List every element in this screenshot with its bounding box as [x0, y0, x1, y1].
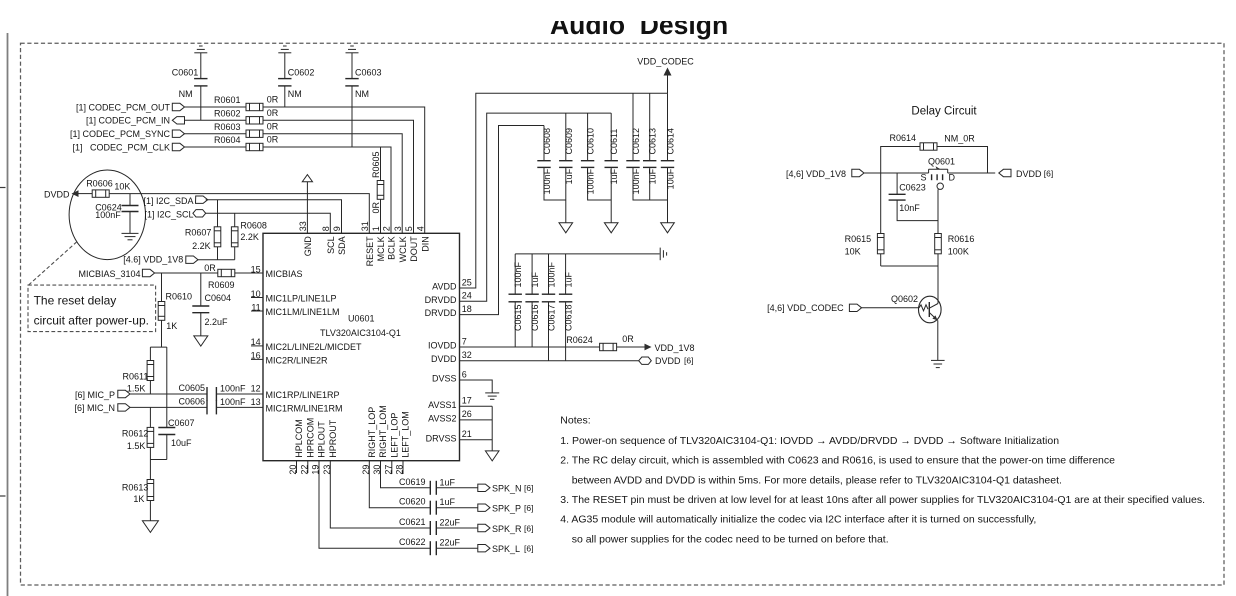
net label DVDD [6]	[655, 356, 693, 367]
svg-text:13: 13	[251, 397, 261, 407]
capacitor C0601 NM	[172, 46, 208, 120]
pin 33 GND	[298, 221, 313, 256]
capacitor C0609 1uF	[559, 113, 574, 223]
svg-text:C0617: C0617	[547, 305, 557, 332]
wire pin19 to C0622	[319, 461, 430, 549]
svg-text:SPK_L: SPK_L	[492, 544, 520, 554]
wire R0609 to pin 15	[235, 272, 263, 274]
connector I2C_SCL	[193, 210, 206, 217]
svg-text:SPK_R: SPK_R	[492, 524, 522, 534]
svg-text:between AVDD and DVDD is withi: between AVDD and DVDD is within 5ms. For…	[572, 474, 1062, 486]
op IC U0601 TLV320AIC3104-Q1 body	[263, 233, 460, 460]
svg-text:9: 9	[332, 226, 342, 231]
pin 19 HPLOUT	[311, 421, 327, 475]
svg-text:BCLK: BCLK	[387, 236, 397, 260]
svg-text:100K: 100K	[948, 246, 969, 256]
svg-text:4: 4	[415, 226, 425, 231]
pin 32 DVDD	[431, 350, 472, 364]
svg-text:C0608: C0608	[542, 128, 552, 155]
connector SPK_P	[478, 504, 490, 511]
svg-text:C0602: C0602	[288, 68, 315, 78]
svg-text:20: 20	[288, 465, 298, 475]
pin 20 HPLCOM	[288, 419, 304, 474]
capacitor C0619 1uF	[399, 477, 478, 495]
svg-text:SDA: SDA	[337, 236, 347, 255]
resistor R0611 1.5K	[123, 347, 154, 394]
wire base	[862, 307, 919, 309]
svg-text:32: 32	[462, 350, 472, 360]
svg-text:[1] I2C_SDA: [1] I2C_SDA	[143, 196, 193, 206]
svg-text:[6]: [6]	[684, 356, 693, 366]
svg-text:R0606: R0606	[86, 178, 113, 188]
svg-text:R0615: R0615	[845, 234, 872, 244]
svg-text:1.5K: 1.5K	[127, 441, 146, 451]
pin 9 SDA	[332, 226, 347, 255]
wire AVSS bus down	[491, 406, 493, 451]
svg-text:C0614: C0614	[666, 128, 676, 155]
svg-text:21: 21	[462, 429, 472, 439]
svg-text:C0612: C0612	[631, 128, 641, 155]
pin 8 SCL	[321, 226, 336, 254]
wire PCM_CLK to BCLK	[263, 147, 391, 233]
pin 10 MIC1LP/LINE1LP	[251, 289, 337, 304]
wire R0614 to drain branch	[937, 147, 988, 174]
svg-text:C0610: C0610	[586, 128, 596, 155]
svg-text:NM: NM	[355, 89, 369, 99]
svg-text:R0614: R0614	[889, 133, 916, 143]
svg-text:R0610: R0610	[166, 292, 193, 302]
connector VDD_1V8 (delay)	[852, 169, 864, 176]
svg-text:[6] MIC_P: [6] MIC_P	[75, 390, 115, 400]
connector SPK_R	[478, 524, 490, 531]
svg-text:10: 10	[251, 289, 261, 299]
capacitor C0610 100nF	[581, 113, 611, 200]
resistor R0610 1K	[158, 273, 192, 347]
node DVDD (bubble)	[44, 189, 92, 199]
resistor R0603 0R	[214, 121, 279, 137]
svg-text:15: 15	[251, 264, 261, 274]
capacitor C0622 22uF	[399, 537, 478, 555]
svg-text:22uF: 22uF	[440, 538, 461, 548]
svg-text:C0611: C0611	[609, 129, 619, 155]
connector SPK_N	[478, 484, 490, 491]
pin 11 MIC1LM/LINE1LM	[251, 302, 340, 317]
svg-text:DVSS: DVSS	[432, 374, 457, 384]
svg-text:C0622: C0622	[399, 537, 426, 547]
pin 2 BCLK	[382, 226, 397, 260]
resistor R0608 2.2K (SCL pull)	[231, 213, 267, 259]
svg-text:U0601: U0601	[348, 314, 375, 324]
svg-text:2.2K: 2.2K	[192, 241, 211, 251]
resistor R0604 0R	[214, 135, 279, 151]
capacitor C0605 100nF	[178, 383, 246, 401]
svg-text:C0618: C0618	[564, 305, 574, 332]
svg-text:R0609: R0609	[208, 280, 235, 290]
svg-text:100nF: 100nF	[513, 261, 523, 287]
wire PCM_CLK row	[185, 146, 247, 148]
svg-text:HPROUT: HPROUT	[328, 419, 338, 458]
svg-text:DVDD: DVDD	[655, 356, 681, 366]
svg-text:25: 25	[462, 277, 472, 287]
capacitor C0614 10uF	[661, 93, 676, 223]
pin 6 DVSS	[432, 369, 467, 383]
svg-text:R0611: R0611	[123, 371, 149, 381]
connector CODEC_PCM_IN	[172, 117, 184, 124]
ground triangle under C0609	[559, 223, 573, 233]
svg-text:HPRCOM: HPRCOM	[306, 418, 316, 458]
svg-text:1uF: 1uF	[440, 497, 456, 507]
note box: reset delay text	[28, 285, 156, 332]
connector CODEC_PCM_OUT	[172, 103, 184, 110]
svg-text:circuit after power-up.: circuit after power-up.	[34, 314, 149, 328]
ground triangle under C0614	[661, 223, 675, 233]
svg-text:NM: NM	[288, 89, 302, 99]
svg-text:22: 22	[299, 465, 309, 475]
svg-text:2.2uF: 2.2uF	[205, 317, 229, 327]
wire AVDD rail to VDD_CODEC	[460, 93, 668, 288]
capacitor C0604 2.2uF	[192, 273, 231, 336]
svg-text:WCLK: WCLK	[398, 236, 408, 262]
wire R0606 to C0624 node	[109, 193, 130, 195]
svg-text:C0603: C0603	[355, 68, 382, 78]
svg-text:MCLK: MCLK	[376, 236, 386, 261]
svg-text:[6]: [6]	[524, 544, 533, 554]
svg-text:RIGHT_LOM: RIGHT_LOM	[378, 405, 388, 458]
ground (earth sideways) bank2	[660, 248, 666, 261]
wire MIC_N row	[130, 406, 207, 408]
pin 7 IOVDD	[428, 336, 467, 350]
svg-text:28: 28	[395, 465, 405, 475]
net label SPK_N [6]	[492, 483, 533, 494]
pin 15 MICBIAS	[251, 264, 303, 279]
svg-text:100nF: 100nF	[220, 397, 246, 407]
resistor R0606 10K	[86, 178, 130, 197]
svg-text:1uF: 1uF	[609, 168, 619, 184]
svg-text:4. AG35 module will automatica: 4. AG35 module will automatically initia…	[560, 514, 1036, 526]
svg-text:C0616: C0616	[530, 305, 540, 332]
resistor R0605 0R (MCLK series)	[371, 147, 384, 233]
pin 4 DIN	[415, 226, 430, 252]
wire C0605 to pin 12	[216, 393, 263, 395]
pin 17 AVSS1	[428, 396, 472, 410]
sheet left edge line	[7, 33, 9, 596]
svg-text:Q0601: Q0601	[928, 156, 955, 166]
svg-text:0R: 0R	[204, 263, 216, 273]
svg-text:MIC2L/LINE2L/MICDET: MIC2L/LINE2L/MICDET	[266, 342, 363, 352]
svg-text:100nF: 100nF	[542, 168, 552, 194]
svg-text:NM: NM	[179, 89, 193, 99]
svg-text:C0620: C0620	[399, 497, 426, 507]
svg-text:1uF: 1uF	[564, 271, 574, 287]
svg-text:MIC1LM/LINE1LM: MIC1LM/LINE1LM	[266, 307, 340, 317]
capacitor C0621 22uF	[399, 517, 478, 535]
ground triangle under C0604	[194, 336, 208, 346]
resistor R0612 1.5K	[122, 407, 154, 459]
resistor R0602 0R	[214, 108, 279, 124]
pin 21 DRVSS	[426, 429, 472, 443]
pin 12 MIC1RP/LINE1RP	[251, 384, 340, 401]
wire bias node jog	[150, 346, 166, 348]
notes text block	[560, 415, 1205, 546]
resistor R0624 0R	[566, 334, 634, 351]
left margin tick 2	[0, 495, 6, 497]
wire PCM_OUT to DIN	[263, 107, 425, 233]
pin 24 DRVDD	[425, 291, 472, 305]
svg-text:16: 16	[251, 351, 261, 361]
connector MIC_P	[118, 390, 130, 397]
svg-text:[1] CODEC_PCM_SYNC: [1] CODEC_PCM_SYNC	[70, 129, 171, 139]
wire pin30 to C0619	[381, 461, 431, 488]
svg-text:3. The RESET pin must be drive: 3. The RESET pin must be driven at low l…	[560, 494, 1205, 506]
ground (earth) under C0624	[122, 233, 139, 239]
svg-text:1. Power-on sequence of TLV320: 1. Power-on sequence of TLV320AIC3104-Q1…	[560, 435, 1059, 447]
net label DVDD [6] (delay)	[1016, 168, 1053, 179]
svg-text:100nF: 100nF	[95, 210, 121, 220]
svg-text:C0607: C0607	[168, 418, 195, 428]
ground triangle AVSS	[485, 451, 499, 461]
svg-text:VDD_1V8: VDD_1V8	[655, 343, 695, 353]
svg-text:DRVSS: DRVSS	[426, 433, 457, 443]
pin 13 MIC1RM/LINE1RM	[251, 397, 343, 414]
svg-text:R0616: R0616	[948, 234, 975, 244]
svg-text:R0602: R0602	[214, 109, 241, 119]
wire VDD_1V8 rail	[198, 259, 235, 261]
capacitor C0616 1uF	[525, 254, 540, 347]
svg-text:VDD_CODEC: VDD_CODEC	[637, 57, 694, 67]
wire MICBIAS row	[155, 272, 218, 274]
svg-text:2.2K: 2.2K	[240, 232, 259, 242]
svg-text:R0601: R0601	[214, 95, 241, 105]
connector DVDD	[639, 357, 652, 364]
svg-text:R0612: R0612	[122, 428, 149, 438]
capacitor C0617 100nF	[542, 254, 557, 361]
ground (earth) DVSS	[485, 393, 499, 399]
svg-text:MIC1RP/LINE1RP: MIC1RP/LINE1RP	[266, 390, 340, 400]
svg-text:HPLOUT: HPLOUT	[317, 421, 327, 458]
svg-text:[6]: [6]	[524, 483, 533, 493]
capacitor C0612 100nF	[626, 93, 667, 200]
capacitor C0613 1uF	[643, 93, 658, 200]
wire DVDD row	[460, 360, 639, 362]
svg-text:100nF: 100nF	[586, 168, 596, 194]
svg-text:26: 26	[462, 409, 472, 419]
svg-text:GND: GND	[303, 236, 313, 256]
svg-text:C0605: C0605	[178, 383, 205, 393]
svg-text:S: S	[920, 172, 926, 182]
wire pin29 to C0620	[369, 461, 430, 508]
ground flag (pin 33 GND)	[302, 175, 312, 234]
resistor R0609 0R	[204, 263, 235, 290]
net label SPK_L [6]	[492, 544, 533, 555]
svg-text:[6]: [6]	[524, 523, 533, 533]
wire C0606 to pin 13	[216, 406, 263, 408]
svg-text:2: 2	[382, 226, 392, 231]
wire source side	[864, 172, 929, 174]
capacitor C0602 NM	[278, 46, 314, 107]
pin 30 RIGHT_LOM	[372, 405, 388, 474]
capacitor C0615 100nF	[509, 254, 524, 347]
svg-text:R0607: R0607	[185, 227, 212, 237]
svg-text:D: D	[949, 172, 956, 182]
svg-text:11: 11	[251, 302, 260, 312]
svg-text:IOVDD: IOVDD	[428, 341, 457, 351]
svg-text:MIC2R/LINE2R: MIC2R/LINE2R	[266, 355, 329, 365]
pin 3 WCLK	[393, 226, 408, 262]
svg-text:DIN: DIN	[420, 236, 430, 252]
svg-text:AVSS2: AVSS2	[428, 413, 456, 423]
svg-text:[1] CODEC_PCM_OUT: [1] CODEC_PCM_OUT	[76, 102, 171, 112]
svg-text:10K: 10K	[845, 246, 861, 256]
svg-text:R0613: R0613	[122, 482, 149, 492]
power arrow VDD_1V8	[617, 343, 695, 353]
resistor R0615 10K	[845, 173, 884, 266]
svg-text:SPK_P: SPK_P	[492, 504, 521, 514]
pin 26 AVSS2	[428, 409, 472, 423]
svg-text:[6] MIC_N: [6] MIC_N	[74, 403, 115, 413]
svg-text:[1] I2C_SCL: [1] I2C_SCL	[144, 209, 193, 219]
svg-text:[6]: [6]	[1044, 168, 1053, 178]
svg-text:1uF: 1uF	[564, 168, 574, 184]
svg-text:C0604: C0604	[205, 293, 232, 303]
svg-text:0R: 0R	[267, 108, 279, 118]
wire pin23 to C0621	[330, 461, 430, 528]
resistor R0616 100K	[935, 234, 975, 267]
svg-text:17: 17	[462, 396, 472, 406]
svg-text:DOUT: DOUT	[409, 236, 419, 262]
connector CODEC_PCM_SYNC	[172, 130, 184, 137]
svg-text:33: 33	[298, 221, 308, 231]
wire PCM_SYNC row	[185, 133, 247, 135]
svg-text:Q0602: Q0602	[891, 294, 918, 304]
wire DRVDD(18) rail	[460, 126, 545, 315]
svg-text:0R: 0R	[267, 135, 279, 145]
wire PCM_SYNC to WCLK	[263, 134, 402, 234]
pin 14 MIC2L/LINE2L/MICDET	[251, 337, 362, 352]
svg-text:100nF: 100nF	[547, 261, 557, 287]
capacitor C0620 1uF	[399, 497, 478, 515]
svg-text:The reset delay: The reset delay	[34, 294, 117, 308]
wire drain to DVDD	[948, 172, 996, 174]
svg-text:1uF: 1uF	[648, 168, 658, 184]
resistor R0601 0R	[214, 95, 279, 111]
wire SDA to pin 9	[206, 200, 342, 234]
sheet title Audio Design (top-clipped)	[400, 0, 900, 40]
transistor Q0601 PMOS	[920, 156, 955, 189]
wire bank2 top rail	[515, 253, 660, 255]
connector SPK_L	[478, 545, 490, 552]
svg-text:AVDD: AVDD	[432, 282, 457, 292]
svg-text:C0615: C0615	[513, 305, 523, 332]
svg-text:31: 31	[360, 221, 370, 231]
pin 5 DOUT	[404, 226, 419, 262]
pin 16 MIC2R/LINE2R	[251, 351, 328, 366]
connector VDD_1V8	[186, 256, 198, 263]
svg-text:6: 6	[462, 369, 467, 379]
svg-text:C0606: C0606	[178, 397, 205, 407]
wire DRVDD(24) rail	[460, 113, 612, 301]
pin 31 RESET	[360, 221, 375, 266]
svg-text:DVDD: DVDD	[431, 354, 457, 364]
svg-text:18: 18	[462, 304, 472, 314]
svg-text:1K: 1K	[133, 494, 144, 504]
pin 1 MCLK	[371, 226, 386, 261]
dashed leader bubble to note box	[29, 242, 77, 285]
svg-text:C0613: C0613	[648, 128, 658, 155]
wire lower row delay	[881, 265, 938, 267]
wire DVSS to ground	[460, 380, 493, 393]
resistor R0614 NM_0R	[889, 133, 975, 150]
svg-text:14: 14	[251, 337, 261, 347]
svg-text:C0609: C0609	[564, 128, 574, 155]
pin 22 HPRCOM	[299, 418, 315, 475]
wire RESET net (bubble to pin 31)	[130, 194, 369, 234]
svg-text:10nF: 10nF	[899, 203, 920, 213]
connector CODEC_PCM_CLK	[172, 143, 184, 150]
svg-text:R0608: R0608	[240, 220, 267, 230]
pin 23 HPROUT	[322, 419, 338, 474]
svg-text:22uF: 22uF	[440, 518, 461, 528]
connector MICBIAS_3104	[142, 269, 154, 276]
svg-text:DVDD: DVDD	[44, 189, 70, 199]
capacitor C0606 100nF	[178, 397, 246, 415]
left margin tick 1	[0, 187, 6, 189]
svg-text:SPK_N: SPK_N	[492, 484, 522, 494]
svg-text:8: 8	[321, 226, 331, 231]
svg-text:1uF: 1uF	[530, 271, 540, 287]
connector DVDD (delay)	[999, 169, 1011, 176]
svg-text:C0619: C0619	[399, 477, 426, 487]
ground (earth) Q0602	[931, 360, 945, 367]
svg-text:MIC1LP/LINE1LP: MIC1LP/LINE1LP	[266, 294, 337, 304]
transistor Q0602 NPN	[891, 294, 941, 323]
svg-text:0R: 0R	[267, 121, 279, 131]
wire AVSS2	[460, 419, 493, 421]
wire collector drop	[937, 266, 939, 304]
wire AVSS1	[460, 405, 493, 407]
svg-text:MIC1RM/LINE1RM: MIC1RM/LINE1RM	[266, 403, 343, 413]
connector MIC_N	[118, 404, 130, 411]
capacitor C0611 1uF	[605, 113, 620, 223]
svg-text:R0624: R0624	[566, 335, 593, 345]
svg-text:Delay Circuit: Delay Circuit	[911, 106, 977, 118]
pin 25 AVDD	[432, 277, 472, 291]
svg-text:100nF: 100nF	[631, 168, 641, 194]
wire SCL to pin 8	[206, 213, 331, 233]
svg-text:1K: 1K	[166, 321, 177, 331]
svg-text:0R: 0R	[267, 95, 279, 105]
svg-text:0R: 0R	[371, 201, 381, 213]
wire gate node	[937, 189, 939, 233]
svg-text:[4.6] VDD_1V8: [4.6] VDD_1V8	[123, 255, 183, 265]
resistor R0613 1K	[122, 460, 154, 521]
svg-text:so all power supplies for the: so all power supplies for the codec need…	[572, 533, 889, 545]
svg-text:1.5K: 1.5K	[127, 384, 146, 394]
wire R0614 top branch	[881, 147, 920, 174]
svg-text:DRVDD: DRVDD	[425, 308, 457, 318]
svg-text:HPLCOM: HPLCOM	[294, 419, 304, 458]
svg-text:R0603: R0603	[214, 122, 241, 132]
wire PCM_IN row	[185, 119, 247, 121]
net label SPK_P [6]	[492, 503, 533, 514]
capacitor C0608 100nF	[537, 126, 566, 201]
wire IOVDD row	[460, 346, 600, 348]
svg-text:SCL: SCL	[326, 236, 336, 254]
capacitor C0623 10nF	[889, 173, 938, 221]
connector VDD_CODEC	[849, 304, 861, 311]
connector I2C_SDA	[195, 196, 207, 203]
svg-text:10uF: 10uF	[171, 438, 192, 448]
svg-text:RESET: RESET	[365, 236, 375, 267]
